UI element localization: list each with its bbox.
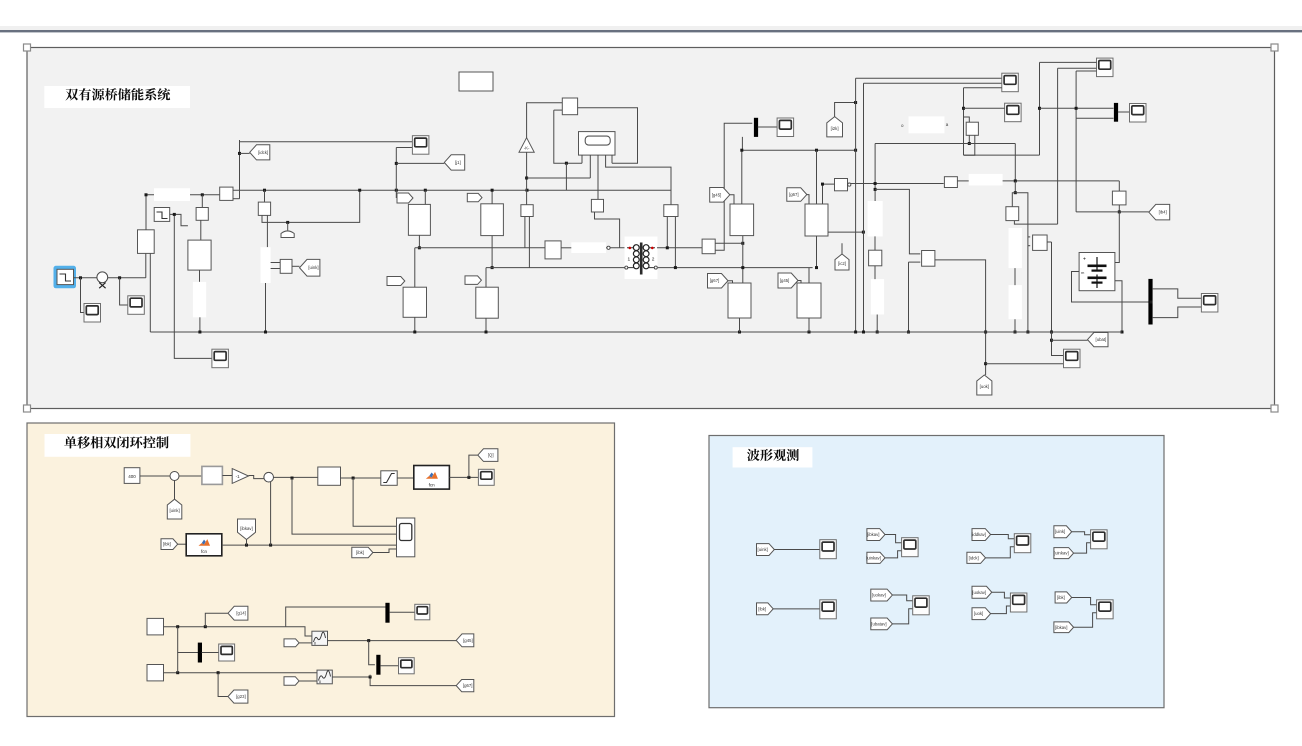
wire V1 right leg down xyxy=(149,253,151,332)
grp3 tag2 xyxy=(967,552,986,563)
wire up to sum2 xyxy=(270,482,272,546)
vertical 1039 xyxy=(1039,62,1041,155)
junction xyxy=(491,266,494,269)
wire to Q tag xyxy=(469,455,478,477)
scope I xyxy=(1130,104,1147,123)
from tag ibk xyxy=(161,539,178,550)
strip to bus xyxy=(876,315,878,333)
junction xyxy=(367,639,370,642)
junction xyxy=(1150,301,1153,304)
wire battery m loop xyxy=(1072,272,1152,303)
svg-text:[ibkav]: [ibkav] xyxy=(1055,625,1067,630)
stub blk in1 xyxy=(1028,236,1030,238)
wire block out to gain block xyxy=(851,183,944,185)
bus bar control 1 xyxy=(198,643,202,663)
display block xyxy=(579,132,616,156)
title area 2 xyxy=(45,434,191,457)
wire to j1 tag xyxy=(396,162,444,164)
stub scope G in3 xyxy=(1076,70,1096,72)
bar3 to scope J in1 xyxy=(1152,289,1201,298)
junction xyxy=(424,189,427,192)
wire to uok vertical xyxy=(935,260,986,375)
mosfet M4 xyxy=(476,287,499,318)
fcn block 1 xyxy=(414,466,450,490)
from tag small 1 xyxy=(284,639,299,647)
wire to g14 xyxy=(205,613,228,626)
wire strip to bus xyxy=(199,317,201,332)
from tag small 2 xyxy=(284,677,299,686)
center small block 3 xyxy=(664,205,678,217)
goto tag g14 xyxy=(228,606,248,620)
junction xyxy=(264,331,267,334)
junction xyxy=(854,101,857,104)
from tag uink vertical xyxy=(167,499,182,519)
display stub E xyxy=(611,155,613,163)
svg-text:8: 8 xyxy=(314,642,316,646)
svg-text:[g67]: [g67] xyxy=(710,278,720,283)
scope E xyxy=(777,118,794,137)
stub into block xyxy=(964,117,970,122)
junction xyxy=(526,189,529,192)
measure block V1 xyxy=(138,230,155,254)
wire M6 top rail xyxy=(816,150,818,204)
wire M8 top xyxy=(808,268,810,283)
junction xyxy=(1014,331,1017,334)
svg-text:[g45]: [g45] xyxy=(463,638,473,643)
wire A to scope F xyxy=(856,77,1002,79)
junction xyxy=(862,231,865,234)
wire to scope K in2 xyxy=(986,363,1064,365)
goto tag uok xyxy=(977,375,992,395)
PI controller block xyxy=(202,466,223,484)
wire tr right bottom xyxy=(658,267,813,269)
wire to bus3 xyxy=(369,641,375,665)
waveform panel (blue) xyxy=(709,436,1164,708)
junction xyxy=(984,362,987,365)
junction xyxy=(286,221,289,224)
junction xyxy=(815,266,818,269)
svg-text:[Q]: [Q] xyxy=(488,453,494,458)
wire blockB out xyxy=(164,672,318,674)
battery block B xyxy=(1079,253,1115,291)
erased vstrip r2 xyxy=(1009,285,1022,319)
bus selector bar 2 xyxy=(1114,103,1118,122)
svg-text:[ib4]: [ib4] xyxy=(1159,210,1167,215)
vertical 1058 xyxy=(1057,68,1059,224)
wire grp7 1 xyxy=(992,592,1011,598)
selection handle xyxy=(1271,405,1278,412)
from tag g45 (M8) xyxy=(778,273,798,288)
svg-text:-K-: -K- xyxy=(524,146,530,151)
svg-text:+: + xyxy=(1083,257,1086,263)
wire dc rail right xyxy=(742,137,855,150)
gate tag g3 xyxy=(387,277,405,286)
junction xyxy=(666,246,669,249)
wire PI to gain xyxy=(222,475,232,477)
junction xyxy=(358,189,361,192)
pulse block B xyxy=(147,665,164,681)
grp2 tag2 xyxy=(866,552,885,563)
step glyph xyxy=(60,274,72,281)
wire idck vertical xyxy=(239,140,241,199)
wire M1 bottom xyxy=(418,235,420,248)
wire to prod 1 xyxy=(271,262,281,264)
grp4 tag1 xyxy=(1054,526,1072,538)
vertical 675 lower xyxy=(674,217,676,268)
svg-text:[uinkav]: [uinkav] xyxy=(866,555,881,560)
wire grp8 2 xyxy=(1074,613,1097,627)
scope uink monitor xyxy=(820,540,837,559)
block above battery xyxy=(1112,191,1126,205)
wire loop right xyxy=(578,108,638,163)
junction xyxy=(238,152,241,155)
svg-text:fcn: fcn xyxy=(429,483,436,488)
wire B1 down xyxy=(199,270,201,282)
goto tag uink xyxy=(300,259,320,276)
wire grp6 2 xyxy=(892,609,912,624)
left leg vertical top xyxy=(874,144,876,202)
svg-text:[ibk]: [ibk] xyxy=(356,550,364,555)
wire g45 to M5 xyxy=(730,195,734,204)
saturation glyph xyxy=(383,474,394,483)
junction xyxy=(862,331,865,334)
wire j1 vertical xyxy=(395,148,397,199)
wire y155 to v1039 xyxy=(964,154,1040,156)
vertical 963 xyxy=(963,88,965,155)
wire up to bus2 xyxy=(286,607,386,627)
svg-text:[g67]: [g67] xyxy=(463,683,473,688)
wire T port2 xyxy=(233,198,240,200)
wire pwm2 to g67 xyxy=(332,677,456,686)
wire to dome xyxy=(287,222,289,230)
from tag ibk 2 xyxy=(352,547,373,557)
junction xyxy=(854,331,857,334)
gain K up xyxy=(519,138,534,153)
svg-text:8: 8 xyxy=(319,680,321,684)
wire M6 bottom xyxy=(816,236,818,268)
scope M xyxy=(415,604,430,620)
wire strip to transformer xyxy=(606,247,627,249)
wire bar2 to scope I xyxy=(1118,111,1130,113)
control panel (beige) xyxy=(27,423,615,717)
step source block xyxy=(57,269,74,284)
wire M5 top rail xyxy=(741,150,743,204)
wire M2 bottom xyxy=(491,236,493,268)
junction xyxy=(968,142,971,145)
junction xyxy=(176,671,179,674)
wire to scope G in2 xyxy=(1058,67,1097,69)
junction xyxy=(263,189,266,192)
two-input scope block xyxy=(397,518,415,557)
wire down to 2in block xyxy=(292,478,397,534)
goto tag g67 xyxy=(456,680,474,692)
junction xyxy=(204,625,207,628)
grp7 tag2 xyxy=(972,608,991,620)
stub xyxy=(1047,241,1051,243)
grp2 tag1 xyxy=(867,529,885,541)
svg-text:[uokav]: [uokav] xyxy=(872,593,886,598)
pulse block A xyxy=(147,618,164,635)
junction xyxy=(418,246,421,249)
vertical 1015 upper xyxy=(1014,144,1016,181)
bar3 to scope J in2 xyxy=(1152,307,1201,318)
goto tag ib4 xyxy=(1149,204,1170,220)
vertical 1076 lower xyxy=(1075,118,1077,212)
svg-text:[g23]: [g23] xyxy=(236,694,246,699)
bus1 to scope L xyxy=(202,652,219,654)
svg-text:1: 1 xyxy=(628,257,631,263)
svg-text:[g14]: [g14] xyxy=(236,611,246,616)
junction xyxy=(145,193,148,196)
wire main row y190 xyxy=(233,189,671,191)
goto tag i2k xyxy=(827,117,843,137)
scope K xyxy=(1064,349,1081,368)
constant 400 block xyxy=(124,468,140,484)
erased strip center xyxy=(571,242,606,253)
scope H xyxy=(1005,103,1022,122)
wire tag to pwm2 xyxy=(299,680,317,682)
wire to scope B xyxy=(120,278,128,305)
gate tag g2 xyxy=(467,193,482,201)
wire lower to busbar xyxy=(1076,117,1113,119)
wire tr right top xyxy=(657,247,702,249)
scope D xyxy=(412,136,429,155)
svg-text:[ibk]: [ibk] xyxy=(758,606,766,611)
wire fcn2 out long xyxy=(222,544,397,546)
svg-text:[ic2]: [ic2] xyxy=(838,261,846,266)
wire sum1 to PI xyxy=(179,475,202,477)
wire to M2 top xyxy=(491,190,493,204)
svg-text:[ibk]: [ibk] xyxy=(163,542,171,547)
wire M8 to bus xyxy=(808,318,810,332)
grp6 tag1 xyxy=(871,589,893,601)
wire grp3 2 xyxy=(986,547,1015,558)
wire loop left xyxy=(554,110,582,163)
small block near i2k xyxy=(835,179,848,191)
wire gain to top block xyxy=(527,103,563,138)
wire B up to bus1 xyxy=(177,653,179,673)
wire to M1 top xyxy=(424,190,426,204)
wire loop tap down xyxy=(565,163,567,190)
junction xyxy=(245,544,248,547)
svg-text:-1: -1 xyxy=(236,474,240,479)
toolbar separator line xyxy=(0,30,1302,32)
junction xyxy=(740,149,743,152)
wire M6 top to block xyxy=(823,184,835,204)
wire g67 to M7 xyxy=(728,281,733,283)
block mid leg xyxy=(922,251,935,267)
stub blk in2 xyxy=(1028,245,1030,247)
selection handle xyxy=(24,405,31,412)
gain block right xyxy=(944,177,957,188)
wire to scope H xyxy=(964,107,1005,109)
svg-text:[g45]: [g45] xyxy=(712,192,722,197)
wire strip3 to bus xyxy=(265,283,267,332)
wire grp6 1 xyxy=(892,595,912,601)
junction xyxy=(352,477,355,480)
junction xyxy=(876,331,879,334)
long vertical B xyxy=(863,83,865,332)
wire ic2 up xyxy=(841,243,843,254)
title area 1 xyxy=(44,86,190,108)
block right mid xyxy=(1006,207,1019,221)
wire to scope G in1 xyxy=(1040,61,1097,63)
bus2 to scope M xyxy=(389,611,415,613)
wire to idck tag xyxy=(240,152,250,154)
wire port2 path xyxy=(964,135,975,155)
title text: main system xyxy=(66,88,171,100)
long vertical A xyxy=(855,78,857,332)
junction xyxy=(674,266,677,269)
junction xyxy=(217,671,220,674)
goto tag ubat xyxy=(1088,333,1109,347)
junction xyxy=(565,162,568,165)
junction xyxy=(738,331,741,334)
ibk monitor xyxy=(757,603,774,615)
junction xyxy=(741,242,744,245)
svg-text:[ubat]: [ubat] xyxy=(1096,337,1107,342)
junction xyxy=(467,476,470,479)
wire M4 top xyxy=(485,268,487,288)
junction xyxy=(821,183,824,186)
gate tag g1 xyxy=(397,193,413,203)
wire feedback in xyxy=(554,109,563,111)
display stub C to mid block xyxy=(597,155,599,199)
wire block2 out xyxy=(595,212,620,248)
gate tag g4 xyxy=(465,276,481,285)
wire grp2 2 xyxy=(885,551,902,558)
controlled source B1 xyxy=(188,240,211,270)
junction xyxy=(291,477,294,480)
top center block xyxy=(562,98,577,115)
wire block2 to sat xyxy=(341,477,381,479)
junction xyxy=(1050,339,1053,342)
wire second into scope D xyxy=(396,147,412,149)
junction xyxy=(1026,331,1029,334)
wire y143 long xyxy=(875,143,1015,145)
center small block 1 xyxy=(521,205,533,217)
svg-text:[g67]: [g67] xyxy=(789,192,799,197)
scope grp4 xyxy=(1091,530,1108,549)
junction xyxy=(79,276,82,279)
junction xyxy=(369,676,372,679)
junction xyxy=(1075,107,1078,110)
goto tag g23 xyxy=(228,690,248,703)
junction xyxy=(1014,191,1017,194)
stub2 xyxy=(874,236,876,250)
display stub A xyxy=(581,155,583,163)
mosfet M7 xyxy=(728,283,751,318)
erased label strip 1 xyxy=(154,188,190,201)
stub in xyxy=(1118,181,1120,191)
svg-text:[uink]: [uink] xyxy=(169,508,179,513)
wire g45 to M8 xyxy=(798,281,801,284)
scope control 1 xyxy=(478,469,494,485)
from tag g67 (M6) xyxy=(787,188,807,202)
stub block port1 xyxy=(968,135,970,143)
wire circle right xyxy=(108,277,146,279)
junction xyxy=(1050,331,1053,334)
scope B xyxy=(128,296,145,315)
bus bar control 2 xyxy=(385,603,389,623)
wire top run to scope D xyxy=(240,141,413,143)
wire 400 to sum1 xyxy=(140,475,170,477)
goto tag ic2 xyxy=(835,254,849,270)
junction xyxy=(1118,210,1121,213)
wire down to gain xyxy=(201,195,203,208)
erased strip 3 xyxy=(261,247,271,283)
v1015 lower xyxy=(1014,181,1016,193)
wire to g23 xyxy=(218,673,228,697)
uink monitor xyxy=(757,544,775,556)
junction xyxy=(525,177,528,180)
wire grp2 1 xyxy=(885,535,902,543)
erased label strip 2 xyxy=(193,282,206,317)
scope grp8 xyxy=(1097,600,1114,619)
stub xyxy=(874,266,876,279)
goto tag Q xyxy=(478,449,498,462)
from tag g45 (M5) xyxy=(710,188,730,203)
vertical 1051 to scope K xyxy=(1052,242,1064,356)
junction xyxy=(395,189,398,192)
wire M3 to bus xyxy=(414,317,416,332)
wire to busbar right xyxy=(1040,107,1114,109)
block1 lead a xyxy=(524,217,526,248)
title text: control xyxy=(64,436,168,448)
bridge1 lower wire xyxy=(486,267,627,269)
grp7 tag1 xyxy=(972,586,992,598)
scope grp6 xyxy=(913,596,930,615)
scope C xyxy=(212,349,229,368)
rms block xyxy=(258,202,270,215)
rate block right xyxy=(966,122,978,135)
wire battery - down xyxy=(1115,281,1122,332)
junction xyxy=(118,276,121,279)
svg-text:400: 400 xyxy=(128,474,136,479)
wire uink to sum1 xyxy=(174,481,176,500)
current measure block xyxy=(702,239,715,254)
wire label to block T xyxy=(190,194,220,196)
selection handle xyxy=(1271,44,1278,51)
stub out xyxy=(1118,205,1120,212)
wire sat to fcn xyxy=(397,477,414,479)
wire grp8 1 xyxy=(1072,597,1097,604)
selection highlight (step source) xyxy=(54,266,77,289)
wire M3 top xyxy=(414,248,416,287)
svg-text:fcn: fcn xyxy=(201,549,208,554)
grp8 tag2 xyxy=(1054,622,1074,633)
wire third to scope F xyxy=(964,87,1002,89)
junction xyxy=(1038,107,1041,110)
wire y178 xyxy=(527,177,591,179)
stub ibkav xyxy=(246,540,248,546)
wire rms to strip xyxy=(266,215,268,247)
wire V1 top to label xyxy=(146,195,154,230)
wire to 2in block in1 xyxy=(353,478,396,526)
erased vstrip left leg xyxy=(871,279,884,314)
mosfet M3 xyxy=(403,287,426,317)
junction xyxy=(984,331,987,334)
center small block 2 xyxy=(591,199,603,212)
junction xyxy=(269,544,272,547)
block T xyxy=(220,187,233,200)
svg-text:[idck]: [idck] xyxy=(969,555,979,560)
source circle xyxy=(97,272,108,283)
block1 lead b xyxy=(528,217,530,268)
svg-text:[uink]: [uink] xyxy=(308,265,318,270)
junction xyxy=(874,188,877,191)
gain block small xyxy=(196,208,208,221)
